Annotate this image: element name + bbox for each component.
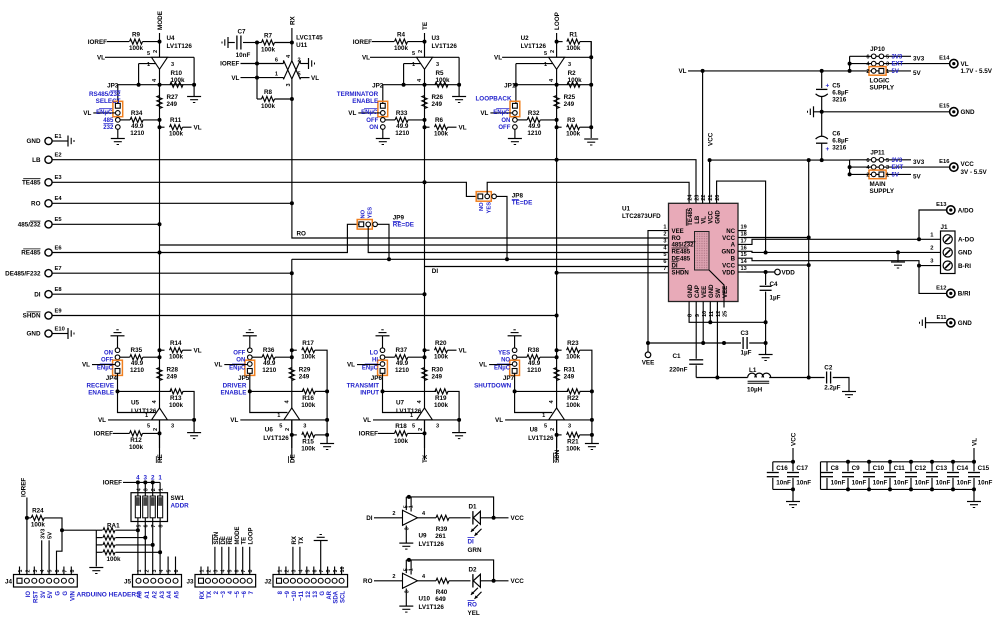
- svg-text:RE485: RE485: [21, 250, 41, 257]
- svg-text:VEE: VEE: [701, 286, 708, 298]
- svg-text:2: 2: [550, 428, 556, 431]
- svg-text:VDD: VDD: [782, 270, 796, 277]
- svg-text:R39: R39: [436, 526, 448, 533]
- jumper JP5: [248, 348, 253, 353]
- svg-text:B/RI: B/RI: [958, 291, 971, 298]
- wire J5 stubs A4 A5: [167, 557, 169, 575]
- svg-text:E6: E6: [55, 245, 63, 251]
- svg-text:GRN: GRN: [468, 547, 482, 554]
- svg-text:G: G: [56, 591, 62, 596]
- svg-text:E2: E2: [55, 153, 62, 159]
- wire: [228, 42, 235, 44]
- resistor R29 249: [289, 368, 294, 381]
- svg-text:100k: 100k: [129, 45, 144, 52]
- svg-text:1: 1: [409, 505, 415, 508]
- svg-text:SDA: SDA: [334, 590, 340, 603]
- turret E5 485/232: [45, 221, 52, 228]
- svg-text:JP11: JP11: [870, 149, 885, 156]
- turret E16 VCC: [950, 163, 958, 171]
- ground: [308, 58, 310, 69]
- svg-text:10nF: 10nF: [831, 480, 846, 487]
- svg-text:VL: VL: [194, 347, 202, 354]
- svg-text:R16: R16: [302, 395, 314, 402]
- capacitor C6 6.8uF 3216: [816, 136, 828, 139]
- wire SW row: [696, 377, 747, 379]
- svg-text:E3: E3: [55, 175, 63, 181]
- ground: [399, 542, 413, 544]
- buffer triangle U8: [549, 408, 565, 420]
- svg-text:DRIVER: DRIVER: [223, 383, 247, 390]
- svg-text:5: 5: [886, 158, 889, 164]
- ground: [813, 106, 815, 117]
- svg-text:10nF: 10nF: [852, 480, 867, 487]
- svg-text:1: 1: [278, 570, 284, 573]
- wire pin1 jog: [250, 391, 288, 412]
- svg-text:E10: E10: [55, 326, 65, 332]
- svg-text:2: 2: [298, 58, 301, 64]
- svg-text:100k: 100k: [301, 353, 316, 360]
- svg-text:LO: LO: [370, 351, 379, 357]
- svg-text:IOREF: IOREF: [88, 39, 107, 46]
- svg-text:E13: E13: [936, 202, 947, 208]
- svg-text:100k: 100k: [31, 521, 46, 528]
- svg-text:100k: 100k: [394, 45, 409, 52]
- capacitor C5 6.8uF 3216: [821, 71, 823, 88]
- resistor R40 649: [418, 580, 437, 582]
- SW1 slot 4: [158, 496, 163, 518]
- buffer triangle U7: [417, 408, 433, 420]
- svg-text:LV1T126: LV1T126: [521, 43, 547, 50]
- svg-text:VL: VL: [459, 347, 467, 354]
- capacitor C13 10nF: [930, 460, 934, 464]
- svg-text:5: 5: [886, 54, 889, 60]
- wire 485/232 pin3 row: [160, 244, 669, 246]
- svg-text:100k: 100k: [436, 77, 451, 84]
- wire DE485 row to U1 pin5: [292, 258, 669, 260]
- resistor R4 100k: [395, 39, 408, 44]
- svg-text:5: 5: [298, 72, 301, 78]
- J1 screw 2 GND: [943, 248, 952, 257]
- svg-text:CAP: CAP: [694, 285, 701, 298]
- svg-text:3: 3: [171, 424, 174, 430]
- svg-text:ENµC: ENµC: [362, 366, 379, 372]
- svg-text:YES: YES: [498, 351, 510, 357]
- svg-text:MODE: MODE: [157, 11, 164, 30]
- wire SW1 column: [159, 482, 161, 496]
- wire MODE rail: [159, 33, 161, 57]
- SW1 slot 3: [150, 496, 155, 518]
- svg-text:D1: D1: [469, 503, 478, 510]
- svg-text:1µF: 1µF: [770, 295, 781, 302]
- wire VL-ENuC: [357, 364, 380, 366]
- svg-text:E8: E8: [55, 287, 63, 293]
- svg-text:IOREF: IOREF: [353, 39, 372, 46]
- svg-text:17: 17: [741, 238, 747, 244]
- wire TE rail: [424, 33, 426, 57]
- svg-text:ENµC: ENµC: [361, 110, 378, 116]
- svg-text:IOREF: IOREF: [20, 478, 27, 497]
- svg-text:3: 3: [291, 570, 297, 573]
- wire pin1 feedback: [516, 63, 553, 65]
- svg-text:R31: R31: [564, 367, 576, 374]
- svg-text:100k: 100k: [566, 353, 581, 360]
- ground above JP7: [508, 335, 522, 337]
- svg-text:~3: ~3: [221, 590, 227, 598]
- svg-text:E12: E12: [936, 286, 946, 292]
- header J4: [14, 575, 78, 588]
- svg-text:E15: E15: [939, 104, 950, 110]
- svg-text:G: G: [320, 591, 326, 596]
- svg-text:18: 18: [741, 232, 747, 238]
- svg-text:6: 6: [174, 570, 180, 573]
- svg-text:100k: 100k: [169, 130, 184, 137]
- ground: [382, 129, 384, 138]
- capacitor C1 220nF: [695, 308, 697, 359]
- svg-text:R27: R27: [167, 94, 179, 101]
- ground: [227, 37, 229, 48]
- wire RE485 row E6: [52, 224, 359, 252]
- svg-text:2: 2: [550, 50, 556, 53]
- svg-text:49.9: 49.9: [528, 123, 541, 130]
- svg-text:5V: 5V: [892, 69, 899, 75]
- resistor R32 49.9: [517, 119, 527, 121]
- svg-text:2.2µF: 2.2µF: [824, 385, 840, 392]
- svg-text:R8: R8: [264, 89, 273, 96]
- capacitor C17 10nF: [792, 462, 794, 472]
- svg-text:DE: DE: [289, 454, 296, 463]
- svg-text:SUPPLY: SUPPLY: [870, 85, 895, 92]
- svg-text:~11: ~11: [299, 590, 305, 601]
- svg-text:10nF: 10nF: [978, 480, 993, 487]
- svg-text:4: 4: [40, 570, 46, 573]
- ground: [89, 567, 103, 569]
- wire B row to J1-3: [747, 258, 941, 265]
- svg-text:7: 7: [151, 525, 157, 528]
- svg-text:R40: R40: [436, 589, 448, 596]
- svg-text:EXT: EXT: [892, 165, 904, 171]
- turret E12 B/RI: [947, 289, 955, 297]
- resistor R8 100k: [256, 78, 258, 99]
- resistor R27 249: [157, 96, 162, 109]
- wire pin1 jog: [118, 391, 156, 412]
- svg-text:A2: A2: [152, 590, 158, 598]
- svg-text:VL: VL: [700, 216, 707, 224]
- svg-text:3: 3: [144, 488, 150, 491]
- resistor R3 100k: [555, 125, 559, 129]
- resistor R22 100k: [515, 390, 569, 392]
- jumper JP8 TE=DE: [476, 192, 491, 202]
- turret E6 RE485: [45, 249, 52, 256]
- svg-text:R29: R29: [299, 367, 311, 374]
- svg-text:E16: E16: [939, 159, 950, 165]
- svg-text:1: 1: [159, 488, 165, 491]
- svg-text:ON: ON: [501, 118, 510, 124]
- wire: [850, 166, 872, 168]
- wire jumper row: [383, 84, 459, 86]
- svg-text:100k: 100k: [568, 77, 583, 84]
- svg-text:JP6: JP6: [371, 375, 383, 382]
- svg-text:LOGIC: LOGIC: [870, 77, 890, 84]
- svg-text:SW1: SW1: [171, 495, 185, 502]
- wire tie rail: [849, 56, 851, 71]
- svg-text:R23: R23: [567, 340, 579, 347]
- resistor R19 100k: [383, 390, 437, 392]
- wire J2 short stubs: [278, 567, 280, 575]
- wire DE485/F232 row E7: [52, 272, 292, 274]
- terminal block J1: [941, 231, 956, 274]
- resistor R36 49.9 1210: [252, 356, 262, 358]
- svg-text:IOREF: IOREF: [359, 431, 378, 438]
- svg-text:3: 3: [568, 424, 571, 430]
- svg-text:SHDN: SHDN: [672, 269, 689, 276]
- svg-text:C15: C15: [978, 465, 990, 472]
- capacitor C10 10nF: [867, 460, 871, 464]
- wire J3 pin7 TE: [242, 547, 244, 575]
- svg-text:ENµC: ENµC: [96, 110, 113, 116]
- svg-text:NO: NO: [360, 209, 366, 218]
- svg-text:3V3: 3V3: [892, 158, 903, 164]
- svg-text:VIN: VIN: [70, 591, 76, 601]
- wire RX rail down: [291, 79, 293, 203]
- svg-text:2: 2: [866, 172, 869, 178]
- resistor R7 100k: [257, 42, 262, 44]
- svg-text:1: 1: [277, 413, 280, 419]
- ground: [117, 129, 119, 138]
- ground: [320, 443, 334, 445]
- svg-text:6: 6: [275, 58, 278, 64]
- svg-text:485: 485: [103, 118, 114, 124]
- wire J3 pin4 DE: [221, 547, 223, 575]
- DIP switch SW1 ADDR: [131, 493, 168, 522]
- svg-text:R26: R26: [432, 94, 444, 101]
- wire SW1 column: [144, 482, 146, 496]
- svg-text:3V3: 3V3: [913, 56, 925, 63]
- svg-text:C3: C3: [741, 330, 750, 337]
- wire supply rail: [405, 497, 407, 510]
- resistor R11 100k: [158, 125, 162, 129]
- svg-text:U10: U10: [419, 595, 431, 602]
- svg-text:U4: U4: [167, 35, 176, 42]
- svg-text:RE: RE: [157, 454, 164, 463]
- svg-text:10nF: 10nF: [236, 52, 251, 59]
- svg-text:R19: R19: [435, 395, 447, 402]
- svg-text:R24: R24: [32, 507, 44, 514]
- capacitor C9 10nF: [846, 460, 850, 464]
- svg-text:1: 1: [158, 475, 162, 482]
- resistor R16 100k: [250, 390, 303, 392]
- svg-text:GND: GND: [958, 250, 972, 257]
- svg-text:D2: D2: [469, 566, 478, 573]
- jumper JP2 TERMINATOR ENABLE: [378, 101, 388, 116]
- resistor R17 100k: [290, 348, 294, 352]
- net label DE: [289, 454, 297, 463]
- svg-text:C13: C13: [936, 465, 948, 472]
- svg-text:J3: J3: [186, 579, 194, 586]
- svg-text:RX: RX: [289, 15, 296, 25]
- wire U1 pin22 VL rail: [702, 71, 704, 203]
- svg-text:10nF: 10nF: [796, 480, 811, 487]
- svg-text:249: 249: [432, 374, 443, 381]
- svg-text:10nF: 10nF: [915, 480, 930, 487]
- svg-text:C1: C1: [672, 353, 681, 360]
- svg-text:100k: 100k: [434, 130, 449, 137]
- wire SW1 column: [137, 482, 139, 496]
- svg-text:100k: 100k: [107, 556, 122, 563]
- turret E13 A/DO: [947, 206, 955, 214]
- resistor R23 100k: [555, 348, 559, 352]
- translator symbol U11: [284, 60, 293, 79]
- wire output rail: [556, 69, 558, 460]
- ground: [193, 420, 195, 433]
- svg-text:3: 3: [404, 590, 410, 593]
- svg-text:9: 9: [333, 570, 339, 573]
- svg-text:U2: U2: [521, 35, 530, 42]
- wire 3V3 stub: [884, 159, 911, 161]
- svg-text:5: 5: [147, 424, 150, 430]
- svg-text:3V3: 3V3: [913, 159, 925, 166]
- svg-text:3V: 3V: [41, 591, 47, 598]
- svg-text:1: 1: [412, 62, 415, 68]
- svg-text:2: 2: [25, 570, 31, 573]
- wire pin 5 to VL: [300, 77, 309, 79]
- SW1 slot 1: [135, 496, 140, 518]
- capacitor C11 10nF: [888, 460, 892, 464]
- svg-text:TE=DE: TE=DE: [512, 199, 532, 206]
- wire jumper row: [118, 84, 194, 86]
- svg-text:SHUTDOWN: SHUTDOWN: [474, 383, 512, 390]
- svg-text:JP2: JP2: [372, 83, 384, 90]
- wire 3V3 stub: [884, 55, 911, 57]
- wire to VCC: [480, 517, 508, 519]
- svg-text:VL: VL: [961, 61, 969, 68]
- wire pin3 ground: [405, 589, 407, 607]
- svg-text:C11: C11: [894, 465, 906, 472]
- wire JP9 right pin down to DE485 row: [378, 224, 390, 259]
- wire TE485 row E3 to JP8: [52, 182, 475, 196]
- ground: [842, 391, 856, 393]
- svg-text:JP7: JP7: [503, 375, 515, 382]
- svg-text:R18: R18: [395, 423, 407, 430]
- svg-text:C17: C17: [796, 465, 808, 472]
- svg-text:E9: E9: [55, 308, 63, 314]
- svg-text:7: 7: [319, 570, 325, 573]
- svg-text:JP4: JP4: [106, 375, 118, 382]
- svg-text:6: 6: [663, 259, 666, 265]
- U1 pin 24 TE485: [686, 207, 694, 226]
- wire SHDN net U1 pin7: [557, 272, 669, 274]
- net label RE: [156, 454, 164, 463]
- svg-text:VL: VL: [479, 361, 487, 368]
- wire output rail: [291, 420, 293, 448]
- svg-text:JP3: JP3: [107, 83, 119, 90]
- svg-text:3: 3: [404, 527, 410, 530]
- U1 exposed pad lead: [709, 270, 724, 302]
- wire RX rail to RO jog: [292, 203, 669, 238]
- svg-text:LOOP: LOOP: [554, 12, 561, 30]
- wire pin3 to feedback rail: [193, 57, 195, 84]
- svg-text:3V - 5.5V: 3V - 5.5V: [961, 169, 988, 176]
- wire JP7 square to feedback row: [514, 373, 516, 391]
- svg-text:LOOPBACK: LOOPBACK: [475, 96, 511, 103]
- turret E3 TE485: [45, 179, 52, 186]
- svg-text:7: 7: [241, 570, 247, 573]
- svg-text:TX: TX: [207, 591, 213, 599]
- svg-text:1: 1: [886, 69, 889, 75]
- svg-text:100k: 100k: [566, 45, 581, 52]
- svg-text:~10: ~10: [292, 590, 298, 601]
- svg-text:49.9: 49.9: [131, 123, 144, 130]
- resistor R34 49.9: [120, 119, 130, 121]
- svg-text:1210: 1210: [130, 367, 145, 374]
- svg-text:NO: NO: [479, 202, 485, 211]
- svg-text:24: 24: [688, 194, 694, 201]
- svg-text:MODE: MODE: [235, 527, 241, 545]
- wire VCC supply row: [710, 159, 850, 161]
- svg-text:1.7V - 5.5V: 1.7V - 5.5V: [961, 68, 993, 75]
- wire LOOP rail: [556, 33, 558, 57]
- svg-text:U5: U5: [131, 400, 140, 407]
- resistor R35 49.9 1210: [120, 356, 130, 358]
- ground: [458, 85, 460, 97]
- wire VCC pin18 row: [747, 237, 809, 239]
- svg-text:49.9: 49.9: [396, 360, 409, 367]
- wire pin3 ground: [405, 526, 407, 544]
- svg-text:C10: C10: [873, 465, 885, 472]
- svg-text:3: 3: [33, 570, 39, 573]
- svg-text:232: 232: [103, 125, 114, 131]
- ground: [585, 443, 599, 445]
- svg-text:AR: AR: [327, 590, 333, 599]
- svg-text:LB: LB: [32, 157, 41, 164]
- svg-text:~5: ~5: [235, 590, 241, 598]
- ground: [193, 85, 195, 97]
- label JP8 TE=DE: [512, 199, 532, 206]
- svg-text:3: 3: [303, 424, 306, 430]
- svg-text:GND: GND: [714, 210, 721, 224]
- resistor R33 49.9: [385, 119, 395, 121]
- resistor R26 249: [422, 96, 427, 109]
- svg-text:1: 1: [147, 62, 150, 68]
- wire: [850, 159, 872, 161]
- svg-text:R28: R28: [167, 367, 179, 374]
- wire 485/232 row E5: [52, 223, 159, 225]
- svg-text:LV1T126: LV1T126: [263, 435, 289, 442]
- svg-text:OFF: OFF: [498, 125, 510, 131]
- svg-text:3V3: 3V3: [892, 54, 903, 60]
- ground: [967, 501, 981, 503]
- svg-text:VL: VL: [678, 68, 686, 75]
- wire RO row E4: [52, 202, 292, 204]
- buffer triangle U6: [284, 408, 300, 420]
- svg-text:R4: R4: [397, 31, 406, 38]
- turret E14 VL: [950, 59, 958, 67]
- svg-text:VL: VL: [348, 110, 356, 117]
- ground above JP5: [243, 335, 257, 337]
- svg-text:261: 261: [435, 533, 446, 540]
- svg-text:~6: ~6: [242, 590, 248, 598]
- svg-text:100k: 100k: [169, 353, 184, 360]
- svg-text:OFF: OFF: [366, 118, 378, 124]
- wire pin 2 to ground: [300, 63, 308, 65]
- svg-text:7: 7: [62, 570, 68, 573]
- wire VL row / pin5 / pin3: [105, 56, 194, 58]
- svg-text:5: 5: [663, 252, 666, 258]
- ground: [458, 420, 460, 433]
- svg-text:100k: 100k: [434, 353, 449, 360]
- svg-text:GND: GND: [687, 284, 694, 298]
- svg-text:ON: ON: [236, 358, 245, 364]
- wire VL-ENuC: [92, 364, 115, 366]
